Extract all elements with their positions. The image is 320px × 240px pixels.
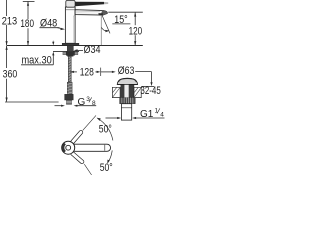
svg-text:50°: 50°: [99, 123, 112, 135]
svg-text:360: 360: [3, 68, 18, 80]
svg-text:50°: 50°: [100, 162, 113, 174]
svg-text:213: 213: [2, 15, 17, 27]
svg-text:180: 180: [20, 18, 34, 30]
svg-text:G: G: [78, 97, 86, 108]
svg-text:8: 8: [92, 100, 96, 107]
svg-text:Ø34: Ø34: [84, 44, 101, 56]
svg-text:Ø63: Ø63: [118, 65, 135, 77]
svg-text:3: 3: [86, 96, 90, 103]
svg-text:1: 1: [155, 107, 159, 114]
svg-text:32-45: 32-45: [140, 85, 160, 97]
svg-text:G1: G1: [140, 109, 154, 120]
svg-text:120: 120: [129, 25, 143, 37]
svg-text:4: 4: [160, 112, 164, 119]
svg-text:128: 128: [80, 66, 94, 78]
